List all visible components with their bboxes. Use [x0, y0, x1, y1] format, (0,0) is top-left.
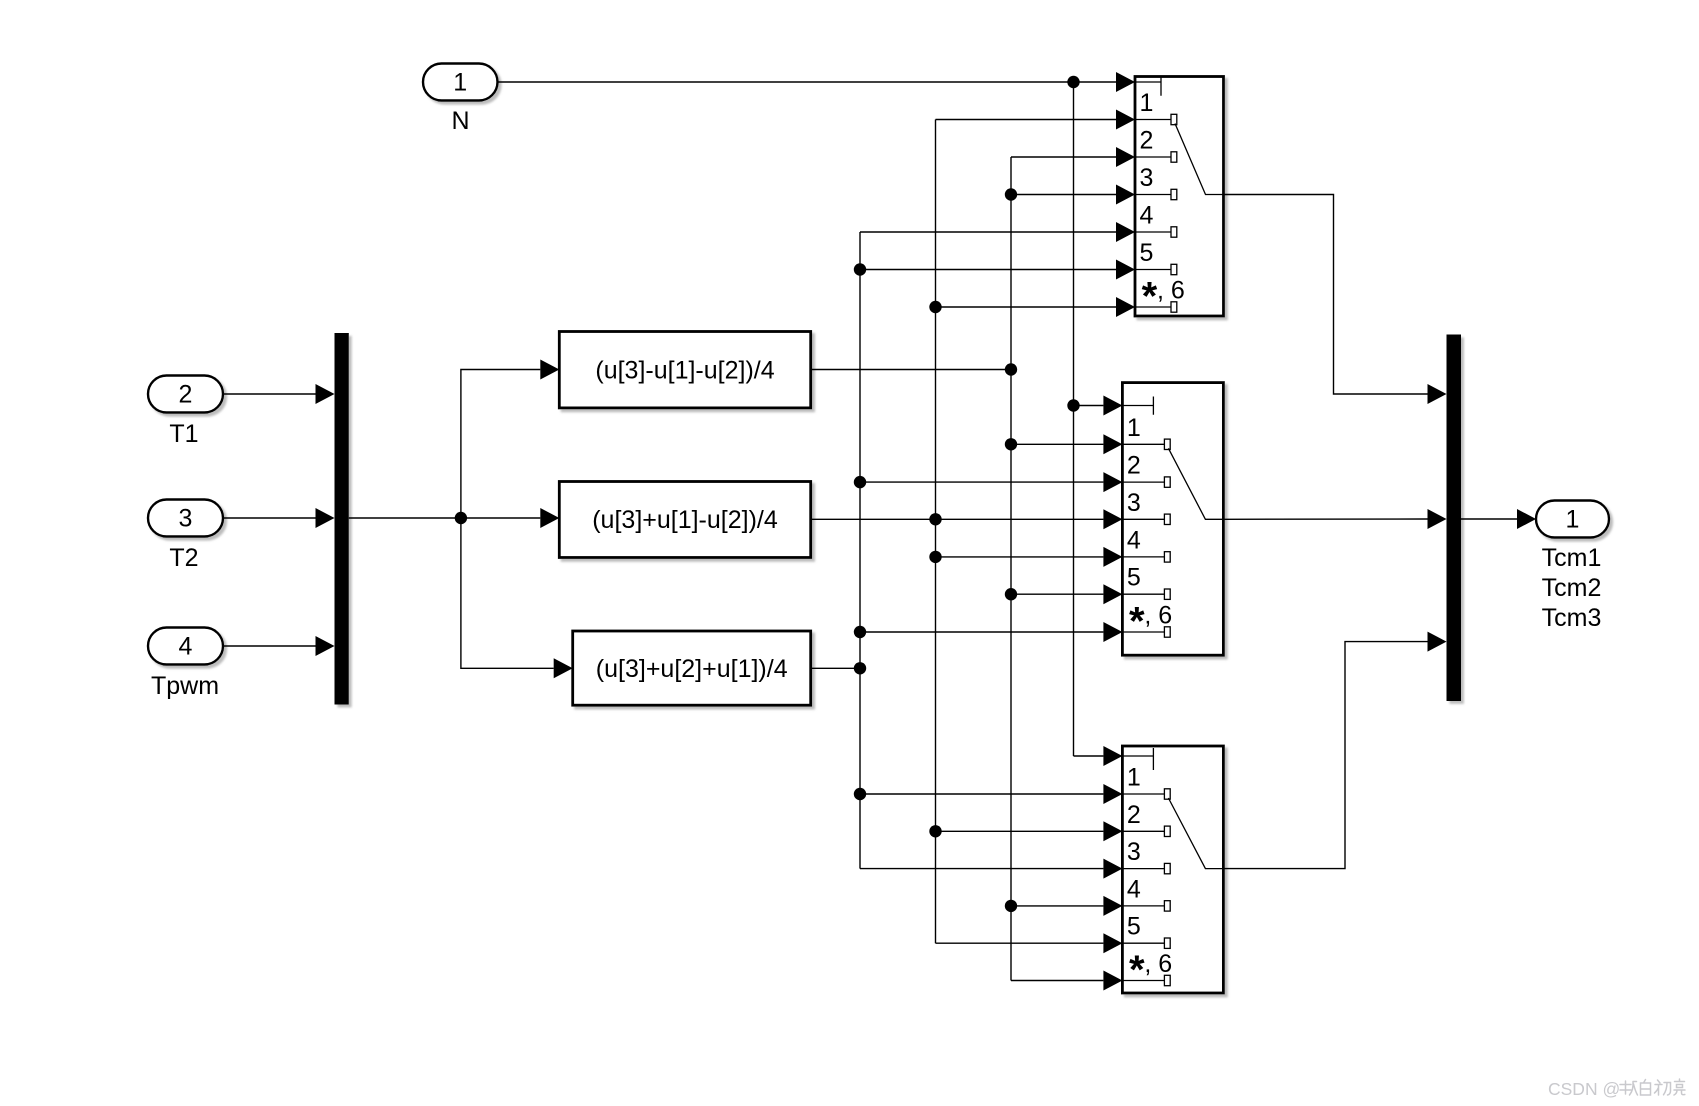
mux Mux1: [335, 333, 349, 705]
wire V3 to MPS2 in1: [1011, 443, 1103, 445]
arrowhead into Mux1 in2: [316, 508, 335, 528]
svg-text:Tpwm: Tpwm: [151, 672, 219, 700]
arrowhead into MPS3 in2: [1103, 821, 1122, 841]
wire V1 to MPS3 in1: [860, 793, 1103, 795]
fcn block Fcn1: [559, 332, 810, 408]
wire Fcn2 out to MPS2 in3: [811, 518, 1104, 520]
svg-text:5: 5: [1140, 239, 1154, 267]
arrowhead into MPS3 in3: [1103, 859, 1122, 879]
svg-text:, 6: , 6: [1144, 602, 1172, 630]
junction V1/MPS2 in6: [854, 626, 866, 638]
wire Fcn1 out to bus V3: [811, 369, 1011, 371]
arrowhead into Fcn2: [540, 508, 559, 528]
svg-text:2: 2: [1127, 452, 1141, 480]
arrowhead into MPS2 in6: [1103, 622, 1122, 642]
junction V2/MPS3 in2: [929, 825, 941, 837]
svg-text:Tcm2: Tcm2: [1542, 574, 1602, 602]
svg-text:(u[3]-u[1]-u[2])/4: (u[3]-u[1]-u[2])/4: [595, 356, 774, 384]
arrowhead into MPS2 in4: [1103, 547, 1122, 567]
junction V1/MPS2 in2: [854, 476, 866, 488]
junction V3/MPS3 in4: [1005, 900, 1017, 912]
arrowhead into MPS2 in3: [1103, 509, 1122, 529]
wire V1 to MPS1 in5: [860, 269, 1116, 271]
wire bus V3: [1010, 157, 1012, 981]
arrowhead into MPS1 in4: [1116, 222, 1135, 242]
arrowhead into MPS3 in6: [1103, 971, 1122, 991]
wire bus V2: [935, 120, 937, 944]
svg-text:T2: T2: [169, 544, 198, 572]
wire T2 to Mux1: [223, 517, 316, 519]
wire V1 to MPS2 in2: [860, 481, 1103, 483]
arrowhead into Fcn1: [540, 360, 559, 380]
inport 4 (Tpwm): [148, 628, 223, 665]
wire V4 to MPS3 control: [1074, 755, 1104, 757]
svg-text:*: *: [1142, 275, 1158, 319]
wire Fcn3 out to bus V1: [811, 667, 860, 669]
svg-text:4: 4: [1127, 526, 1141, 554]
inport 2 (T1): [148, 376, 223, 413]
svg-text:2: 2: [1140, 127, 1154, 155]
wire V2 to MPS3 in5: [936, 942, 1104, 944]
svg-text:3: 3: [1127, 838, 1141, 866]
junction Fcn2/V2: [929, 513, 941, 525]
svg-text:N: N: [451, 107, 469, 135]
wire Mux1 out to Fcn2: [349, 517, 541, 519]
junction Fcn1/V3: [1005, 363, 1017, 375]
arrowhead into Mux2 in1: [1428, 384, 1447, 404]
inport 3 (T2): [148, 500, 223, 537]
arrowhead into MPS3 control: [1103, 746, 1122, 766]
arrowhead into Mux2 in2: [1428, 509, 1447, 529]
wire V1 to MPS1 in4: [860, 231, 1116, 233]
junction V2/MPS1 in6: [929, 301, 941, 313]
svg-text:4: 4: [179, 633, 193, 661]
arrowhead into MPS2 control: [1103, 396, 1122, 416]
svg-text:5: 5: [1127, 564, 1141, 592]
arrowhead into Mux1 in3: [316, 636, 335, 656]
mux Mux2: [1447, 335, 1462, 702]
arrowhead into MPS2 in5: [1103, 584, 1122, 604]
svg-text:4: 4: [1127, 875, 1141, 903]
multiport switch MPS1: [1135, 77, 1224, 319]
svg-text:T1: T1: [169, 420, 198, 448]
svg-text:1: 1: [453, 69, 467, 97]
svg-text:1: 1: [1127, 764, 1141, 792]
wire MPS1 out to Mux2: [1224, 195, 1428, 395]
wire Tpwm to Mux1: [223, 645, 316, 647]
fcn block Fcn3: [573, 631, 811, 705]
wire V3 to MPS1 in3: [1011, 194, 1116, 196]
watermark hanzi: [1620, 1079, 1685, 1095]
svg-text:1: 1: [1140, 89, 1154, 117]
junction N/V4: [1067, 76, 1079, 88]
arrowhead into MPS1 control: [1116, 72, 1135, 92]
arrowhead into Mux2 in3: [1428, 632, 1447, 652]
arrowhead into MPS3 in1: [1103, 784, 1122, 804]
wire V3 to MPS1 in2: [1011, 156, 1116, 158]
svg-text:1: 1: [1127, 414, 1141, 442]
multiport switch MPS2: [1122, 383, 1223, 656]
wire MPS3 out to Mux2: [1223, 642, 1427, 869]
svg-text:*: *: [1129, 600, 1145, 644]
arrowhead into MPS1 in5: [1116, 260, 1135, 280]
junction Fcn3/V1: [854, 662, 866, 674]
arrowhead into MPS1 in1: [1116, 110, 1135, 130]
wire MPS2 out to Mux2: [1223, 518, 1427, 520]
svg-text:1: 1: [1566, 506, 1580, 534]
svg-text:Tcm1: Tcm1: [1542, 544, 1602, 572]
arrowhead into MPS1 in6: [1116, 297, 1135, 317]
junction V1/MPS3 in1: [854, 788, 866, 800]
svg-text:, 6: , 6: [1157, 277, 1185, 305]
arrowhead into MPS1 in2: [1116, 147, 1135, 167]
multiport switch MPS3: [1122, 746, 1223, 993]
arrowhead into Mux1 in1: [316, 384, 335, 404]
wire V2 to MPS3 in2: [936, 830, 1104, 832]
wire V3 to MPS2 in5: [1011, 593, 1103, 595]
svg-text:2: 2: [179, 381, 193, 409]
inport 1 (N): [423, 64, 498, 101]
wire V1 to MPS3 in3: [860, 868, 1103, 870]
svg-text:*: *: [1129, 948, 1145, 992]
svg-text:3: 3: [1127, 489, 1141, 517]
arrowhead into MPS2 in2: [1103, 472, 1122, 492]
junction Mux1 trunk: [455, 512, 467, 524]
wire V3 to MPS3 in6: [1011, 980, 1103, 982]
arrowhead into outport: [1517, 509, 1536, 529]
svg-text:3: 3: [1140, 164, 1154, 192]
junction V3/MPS2 in5: [1005, 588, 1017, 600]
wire T1 to Mux1: [223, 393, 316, 395]
outport 1 (Tcm): [1536, 501, 1609, 538]
svg-text:5: 5: [1127, 913, 1141, 941]
svg-text:CSDN @: CSDN @: [1548, 1079, 1620, 1099]
svg-text:(u[3]+u[1]-u[2])/4: (u[3]+u[1]-u[2])/4: [592, 506, 778, 534]
arrowhead into Fcn3: [554, 658, 573, 678]
wire V3 to MPS3 in4: [1011, 905, 1103, 907]
svg-text:, 6: , 6: [1144, 950, 1172, 978]
svg-text:Tcm3: Tcm3: [1542, 604, 1602, 632]
wire V1 to MPS2 in6: [860, 631, 1103, 633]
wire V2 to MPS1 in6: [936, 306, 1117, 308]
junction V2/MPS2 in4: [929, 551, 941, 563]
arrowhead into MPS3 in4: [1103, 896, 1122, 916]
wire N to MPS1 control: [498, 81, 1117, 83]
wire V2 to MPS1 in1: [936, 119, 1117, 121]
svg-text:4: 4: [1140, 202, 1154, 230]
junction V1/MPS1 in5: [854, 263, 866, 275]
fcn block Fcn2: [559, 482, 810, 558]
wire bus V4: [1073, 82, 1075, 756]
svg-text:(u[3]+u[2]+u[1])/4: (u[3]+u[2]+u[1])/4: [596, 655, 788, 683]
arrowhead into MPS2 in1: [1103, 434, 1122, 454]
wire branch to Fcn1: [461, 370, 540, 519]
arrowhead into MPS3 in5: [1103, 933, 1122, 953]
wire Mux2 out to outport: [1461, 518, 1517, 520]
junction V3/MPS2 in1: [1005, 438, 1017, 450]
wire V2 to MPS2 in4: [936, 556, 1104, 558]
junction V4/MPS2 control: [1067, 399, 1079, 411]
wire branch to Fcn3: [461, 518, 554, 668]
wire V4 to MPS2 control: [1074, 405, 1104, 407]
junction V3/MPS1 in3: [1005, 188, 1017, 200]
svg-text:2: 2: [1127, 801, 1141, 829]
svg-text:3: 3: [179, 505, 193, 533]
arrowhead into MPS1 in3: [1116, 185, 1135, 205]
wire bus V1: [859, 232, 861, 869]
